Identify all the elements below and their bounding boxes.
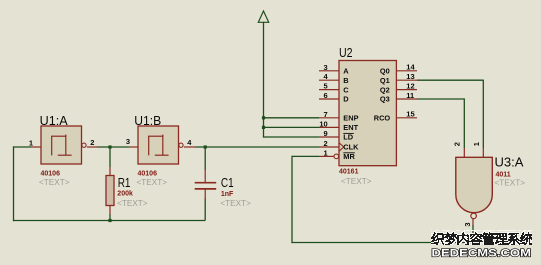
schmitt inverter U1:B (126, 114, 195, 187)
svg-text:1: 1 (472, 142, 481, 146)
U2 right pin 13 stub (396, 79, 417, 81)
wire bottom feedback horizontal (13, 220, 205, 222)
wire U1:A output to U1:B input (97, 146, 129, 148)
svg-text:13: 13 (406, 72, 414, 81)
watermark chinese glow (431, 230, 532, 245)
U1:B pin 4 stub (184, 146, 195, 148)
wire Q3 horizontal to U3 pin2 (417, 98, 464, 100)
svg-text:3: 3 (463, 222, 472, 226)
svg-text:5: 5 (324, 82, 328, 91)
svg-text:LD: LD (343, 133, 354, 142)
wire R1 bottom (109, 214, 111, 221)
wire U1:B output to U2 CLK (195, 146, 319, 148)
NAND gate U3:A 4011 (453, 142, 526, 226)
svg-text:ENP: ENP (343, 114, 358, 123)
wire VCC vertical drop (263, 22, 265, 138)
svg-text:Q1: Q1 (380, 76, 390, 85)
svg-text:1nF: 1nF (221, 191, 234, 198)
svg-text:C: C (343, 85, 349, 94)
U1:A pin 1 stub (31, 146, 41, 148)
svg-text:CLK: CLK (343, 143, 359, 152)
svg-text:U1:B: U1:B (134, 114, 161, 128)
wire U3 pin1 vertical (482, 80, 484, 148)
wire U3 pin2 vertical (463, 98, 465, 148)
svg-text:U1:A: U1:A (40, 114, 69, 128)
svg-text:<TEXT>: <TEXT> (495, 179, 526, 188)
svg-text:1: 1 (29, 139, 33, 148)
U2 right pin 11 stub (396, 98, 417, 100)
wire NAND output vertical (472, 225, 474, 243)
U3:A gate body (456, 157, 493, 212)
U2 LD overline (343, 132, 354, 134)
U1:B pin 3 stub (129, 146, 138, 148)
svg-text:7: 7 (324, 110, 328, 119)
svg-text:40161: 40161 (339, 168, 359, 175)
svg-text:6: 6 (324, 91, 328, 100)
U2 left pin 2 stub (319, 146, 339, 148)
svg-text:D: D (343, 95, 349, 104)
svg-text:A: A (343, 67, 349, 76)
svg-text:2: 2 (453, 142, 462, 146)
svg-text:15: 15 (406, 110, 414, 119)
wire MR vertical down (291, 156, 293, 243)
U2 right pin 14 stub (396, 70, 417, 72)
U2 right pin 12 stub (396, 89, 417, 91)
U2 left pin 7 stub (319, 117, 339, 119)
svg-text:3: 3 (324, 63, 328, 72)
wire R1 top (109, 147, 111, 167)
svg-text:RCO: RCO (374, 114, 391, 123)
svg-text:U3:A: U3:A (495, 155, 525, 169)
svg-text:B: B (343, 76, 348, 85)
U1:A pin 2 stub (87, 146, 97, 148)
U1:A output bubble (82, 143, 86, 147)
junction ENP-VCC (262, 116, 265, 119)
svg-text:Q2: Q2 (380, 85, 390, 94)
svg-text:MR: MR (343, 152, 355, 161)
wire C1 bottom (204, 199, 206, 221)
wire C1 top (204, 147, 206, 170)
schmitt inverter U1:A (29, 114, 97, 187)
svg-text:12: 12 (406, 81, 414, 90)
wire MR horizontal (292, 155, 319, 157)
wire feedback-loop left vertical (13, 146, 15, 221)
U3:A pin 3 stub (472, 219, 474, 226)
svg-text:2: 2 (90, 138, 94, 147)
U2 pin 1 MR stub (319, 155, 334, 157)
U2 MR overline (343, 152, 355, 154)
wire LD horizontal (263, 136, 319, 138)
svg-text:<TEXT>: <TEXT> (341, 177, 372, 186)
junction C1-top (204, 145, 207, 148)
U3:A pin 1 stub (482, 148, 484, 157)
U2 left pin 4 stub (319, 79, 339, 81)
U2 CLK edge chevron (339, 143, 344, 151)
svg-text:40106: 40106 (138, 170, 158, 177)
svg-text:Q0: Q0 (380, 67, 390, 76)
C1 bottom plate (195, 188, 217, 190)
svg-text:C1: C1 (221, 176, 234, 190)
svg-text:14: 14 (406, 63, 415, 72)
junction R1-top (108, 145, 111, 148)
svg-text:Q3: Q3 (380, 95, 390, 104)
svg-text:11: 11 (406, 91, 414, 100)
wire bottom reset horizontal (291, 242, 473, 244)
U2 left pin 3 stub (319, 70, 339, 72)
svg-text:1: 1 (324, 148, 328, 157)
U2 right pin 15 stub (396, 117, 417, 119)
svg-text:U2: U2 (339, 46, 353, 60)
wire Q1 horizontal to U3 pin1 (417, 79, 483, 81)
U2 left pin 10 stub (319, 126, 339, 128)
U3:A output bubble (471, 213, 477, 219)
power VCC arrow symbol (258, 11, 268, 22)
U2 left pin 9 stub (319, 136, 339, 138)
svg-text:<TEXT>: <TEXT> (220, 199, 251, 208)
svg-text:200k: 200k (117, 191, 133, 198)
svg-text:2: 2 (324, 139, 328, 148)
svg-text:10: 10 (319, 119, 327, 128)
watermark chinese text (431, 232, 532, 245)
wire ENT horizontal (263, 126, 319, 128)
wire ENP horizontal (263, 117, 319, 119)
svg-text:<TEXT>: <TEXT> (39, 178, 70, 187)
svg-text:ENT: ENT (343, 123, 358, 132)
U2 left pin 5 stub (319, 89, 339, 91)
U1:B output bubble (179, 143, 183, 147)
U3:A pin 2 stub (463, 148, 465, 157)
svg-text:<TEXT>: <TEXT> (137, 178, 168, 187)
wire U1:A input horizontal (13, 146, 31, 148)
U2 left pin 6 stub (319, 98, 339, 100)
svg-text:3: 3 (126, 137, 130, 146)
svg-text:R1: R1 (118, 176, 131, 190)
svg-text:4011: 4011 (496, 171, 511, 178)
junction ENT-VCC (262, 126, 265, 129)
U2 MR inversion bubble (334, 154, 339, 159)
watermark DEDECMS.COM (432, 247, 532, 259)
capacitor C1 (195, 169, 251, 208)
counter U2 40161 body (319, 46, 417, 186)
svg-text:<TEXT>: <TEXT> (117, 199, 148, 208)
svg-text:9: 9 (324, 129, 328, 138)
svg-text:DEDECMS.COM: DEDECMS.COM (432, 247, 532, 259)
junction R1-bottom (108, 219, 111, 222)
svg-text:40106: 40106 (41, 170, 61, 177)
resistor R1 (106, 167, 148, 215)
C1 top plate (195, 182, 217, 184)
